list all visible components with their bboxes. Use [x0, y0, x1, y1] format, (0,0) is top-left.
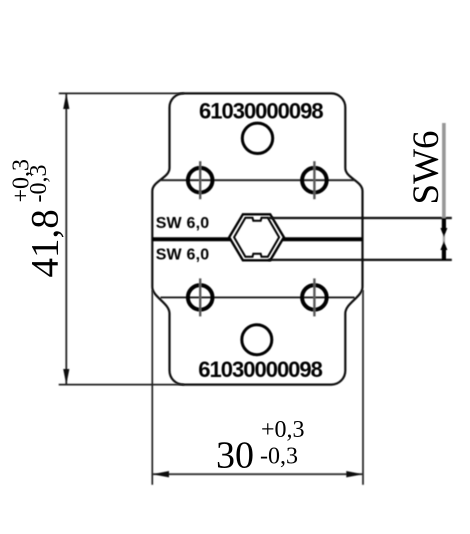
width arrow right — [346, 471, 363, 477]
SW6 arrow up — [440, 228, 447, 237]
SW6 dimension leader gray — [442, 123, 446, 218]
width extension line left — [151, 290, 153, 485]
crimp hexagon inner with notches — [234, 218, 279, 257]
SW6 dimension line — [442, 218, 446, 231]
bolt hole bottom-left — [188, 278, 213, 316]
height extension line top — [59, 92, 184, 94]
parting centerline right — [283, 237, 363, 241]
SW6 extension line bottom — [268, 259, 452, 261]
pilot hole bottom — [242, 325, 272, 355]
crimp hexagon outer — [229, 214, 284, 260]
height arrow down — [63, 369, 69, 385]
die body outline — [152, 93, 362, 384]
die joint line lower — [161, 296, 355, 298]
parting centerline left — [152, 237, 230, 241]
svg-text:61030000098: 61030000098 — [199, 98, 323, 123]
height arrow up — [63, 93, 69, 109]
SW6 extension line top — [268, 217, 452, 219]
SW6 arrow down — [440, 241, 447, 250]
svg-text:-0,3: -0,3 — [26, 165, 52, 203]
die joint line upper — [161, 179, 355, 181]
svg-text:-0,3: -0,3 — [260, 444, 298, 470]
svg-text:30: 30 — [216, 434, 254, 476]
svg-text:SW6: SW6 — [406, 131, 447, 205]
svg-text:41,8: 41,8 — [24, 209, 67, 277]
pilot hole top — [242, 123, 272, 153]
height dimension line — [65, 93, 67, 384]
svg-text:SW 6,0: SW 6,0 — [156, 246, 210, 263]
width dimension line — [152, 473, 363, 475]
bolt hole top-left — [188, 161, 213, 199]
width arrow left — [152, 471, 169, 477]
svg-text:61030000098: 61030000098 — [198, 357, 322, 382]
bolt hole top-right — [302, 161, 327, 199]
svg-text:+0,3: +0,3 — [261, 417, 305, 443]
height extension line bottom — [59, 384, 184, 386]
width extension line right — [362, 290, 364, 485]
bolt hole bottom-right — [302, 278, 327, 316]
svg-text:SW 6,0: SW 6,0 — [156, 215, 210, 232]
